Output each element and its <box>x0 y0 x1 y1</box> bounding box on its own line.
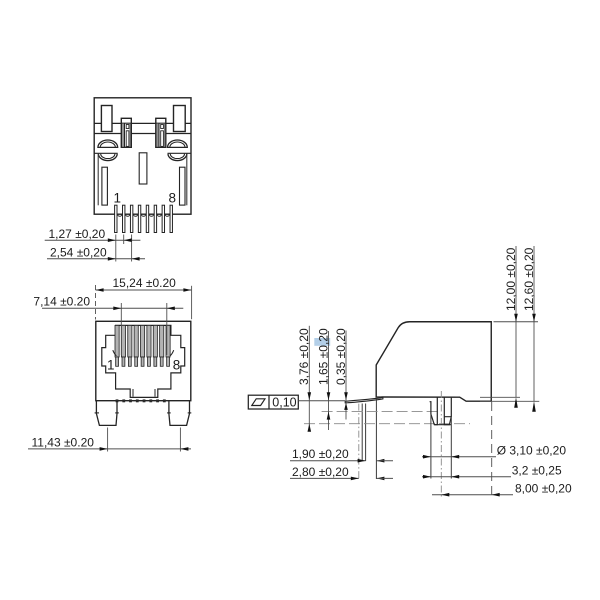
svg-text:0,10: 0,10 <box>272 396 296 410</box>
ext line 12,00 bottom <box>480 396 520 398</box>
view1 post slot upper <box>126 125 129 129</box>
arrow 2,80 right <box>376 477 384 481</box>
ext line 7,14 right <box>166 303 168 355</box>
view1 center post outline <box>121 118 131 147</box>
view1 post inner line <box>158 123 160 147</box>
svg-text:1: 1 <box>114 190 122 205</box>
view1 upper horizontal edge <box>94 122 191 124</box>
view1 screw dome outer <box>168 140 188 147</box>
arrow 0,35 bottom <box>344 403 348 410</box>
view3 peg bottom edge <box>434 424 451 426</box>
flatness symbol <box>252 399 265 406</box>
view1 screw band line <box>94 152 118 154</box>
view1 center post outline <box>156 118 166 147</box>
view3 pcb top line <box>322 411 441 413</box>
view1 post cap line <box>156 122 166 124</box>
view2 comb finger 4 lower <box>135 357 138 366</box>
svg-text:8: 8 <box>173 357 181 372</box>
dim line 12,60 <box>533 246 535 401</box>
svg-text:3,76 ±0,20: 3,76 ±0,20 <box>297 328 311 385</box>
view2 port opening outline <box>102 325 185 397</box>
svg-text:12,00 ±0,20: 12,00 ±0,20 <box>504 247 518 311</box>
arrow 2,80 left <box>351 477 359 481</box>
arrow 12,00 bottom <box>514 397 518 408</box>
view1 bottom scallop <box>149 214 153 216</box>
view3 peg left half <box>430 397 438 425</box>
arrow 3,76 bottom <box>308 424 312 432</box>
view1 screw dome inner <box>170 142 185 147</box>
view2 comb finger 5 lower <box>141 357 144 366</box>
view2 pin tip 4 <box>136 399 139 402</box>
arrow 3,10 right <box>451 455 459 459</box>
view2 comb finger 8 upper <box>160 325 164 357</box>
dim line 1,90 <box>290 460 366 462</box>
ext line 15,24 left <box>95 285 97 320</box>
view3 peg centerline <box>440 391 442 498</box>
arrow 3,10 left <box>423 455 431 459</box>
view1 pin 4 <box>138 205 140 232</box>
arrow 2,54 right <box>132 257 140 261</box>
view2 comb finger 2 upper <box>121 325 125 357</box>
dim line 1,65 <box>328 331 330 430</box>
ext line pin3 <box>131 235 133 262</box>
view1 post slot upper <box>161 125 164 129</box>
view2 pin tip 8 <box>163 399 166 402</box>
svg-text:1: 1 <box>107 357 115 372</box>
ext line pin2 <box>123 235 125 245</box>
dim line 1,27 <box>45 239 141 241</box>
view1 left top tab <box>101 106 112 132</box>
arrow 3,2 right <box>451 475 459 479</box>
svg-text:2,80 ±0,20: 2,80 ±0,20 <box>292 465 349 479</box>
view1 pin 8 <box>170 205 172 232</box>
arrow 12,00 top <box>514 314 518 322</box>
view1 bottom scallop <box>157 214 161 216</box>
view1 bottom scallop <box>134 214 138 216</box>
view1 right side slot <box>180 167 186 205</box>
view1 post cap line <box>121 122 131 124</box>
flatness tolerance frame <box>248 395 298 409</box>
view2 pin tip 6 <box>149 399 152 402</box>
view3 peg right half <box>444 397 451 425</box>
view2 left latch arc <box>113 350 117 356</box>
arrow 12,60 bottom <box>532 401 536 412</box>
view2 pin tip 5 <box>143 399 146 402</box>
arrow 3,76 top <box>308 392 312 400</box>
view3 peg right step <box>444 416 451 418</box>
ext line 15,24 right <box>191 286 193 319</box>
view3 pin line right <box>365 404 367 462</box>
view2 pin tip 7 <box>156 399 159 402</box>
view2 comb finger 9 lower <box>167 357 170 366</box>
svg-text:12,60 ±0,20: 12,60 ±0,20 <box>522 247 536 311</box>
arrow 1,90 left <box>358 459 366 463</box>
view2 right leg notch r <box>188 412 192 414</box>
view2 latch slot inner right <box>154 389 156 397</box>
view3 body outline <box>376 322 491 401</box>
svg-text:Ø 3,10 ±0,20: Ø 3,10 ±0,20 <box>497 443 567 457</box>
view1 center key slot <box>139 153 147 184</box>
view2 comb finger 6 lower <box>148 357 151 366</box>
view2 pin tip 3 <box>129 399 132 402</box>
view2 right leg <box>169 401 190 426</box>
view2 comb finger 2 lower <box>122 357 125 366</box>
selection highlight <box>314 338 330 346</box>
arrow 7,14 right <box>167 307 175 311</box>
view1 left side slot <box>102 167 108 205</box>
view2 pin tip 1 <box>116 399 119 402</box>
arrow 0,35 top <box>344 392 348 400</box>
ext line 7,14 left <box>120 303 122 355</box>
dim line 7,14 <box>42 307 183 309</box>
dim line 0,35 <box>345 331 347 420</box>
dim line 3,76 <box>308 326 310 427</box>
dim line 11,43 <box>28 448 191 450</box>
arrow 12,60 top <box>532 314 536 322</box>
view1 post left shade <box>157 124 159 147</box>
dim line 2,54 <box>47 258 145 260</box>
view1 post right shade <box>164 124 165 147</box>
view2 right leg notch l <box>167 412 171 414</box>
view1 connector body outline <box>94 98 191 214</box>
view3 pcb bottom line <box>304 423 470 425</box>
view2 comb finger 9 upper <box>166 325 170 357</box>
view3 body back extension <box>491 402 493 497</box>
view3 peg right ext <box>450 418 452 479</box>
svg-text:3,2 ±0,25: 3,2 ±0,25 <box>512 463 562 477</box>
view1 pin 1 <box>115 205 117 232</box>
arrow 8,00 left <box>441 493 449 497</box>
view1 post inner line <box>124 123 126 147</box>
view1 screw lower arc inner <box>170 154 184 159</box>
arrow 15,24 right <box>183 288 191 292</box>
svg-text:8: 8 <box>169 190 177 205</box>
arrow 1,65 top <box>327 392 331 400</box>
view2 comb finger 7 lower <box>154 357 157 366</box>
dim line 3,2 <box>422 476 511 478</box>
view2 right latch arc <box>170 350 174 356</box>
view1 screw lower arc outer <box>98 154 117 161</box>
dim line 3,10 <box>422 456 496 458</box>
ext line 11,43 right <box>179 428 181 452</box>
view1 bottom scallop <box>118 214 122 216</box>
view3 pin line left <box>361 404 363 462</box>
dim line 1,90 tail <box>376 460 393 462</box>
view1 bottom scallop <box>165 214 169 216</box>
view1 bottom scallop <box>141 214 145 216</box>
view1 post left shade <box>122 124 124 147</box>
arrow 3,2 left <box>423 475 431 479</box>
svg-text:1,90 ±0,20: 1,90 ±0,20 <box>292 447 349 461</box>
dim line 8,00 <box>432 494 513 496</box>
view3 peg left ext <box>430 414 432 479</box>
view1 lower horizontal edge <box>94 133 191 135</box>
view1 pin 5 <box>146 205 148 232</box>
view3 pin centerline <box>358 404 360 480</box>
svg-text:7,14 ±0.20: 7,14 ±0.20 <box>33 295 90 309</box>
view1 right top tab <box>174 106 186 132</box>
ext line 11,43 left <box>107 428 109 452</box>
view1 screw lower arc outer <box>168 154 187 161</box>
view2 comb finger 1 upper <box>115 325 119 357</box>
ext line top right <box>494 321 539 323</box>
view2 comb finger 4 upper <box>134 325 138 357</box>
view1 post right shade <box>130 124 131 147</box>
svg-text:1,65 ±0,20: 1,65 ±0,20 <box>316 328 330 385</box>
view2 latch slot inner left <box>132 389 134 397</box>
view1 bottom scallop <box>126 214 130 216</box>
view2 pin tip 2 <box>122 399 125 402</box>
view1 pin 6 <box>154 205 156 232</box>
view1 post slot lower <box>161 131 164 147</box>
arrow 1,27 left <box>108 238 116 242</box>
view1 pin 3 <box>130 205 132 232</box>
arrow 2,54 left <box>108 257 116 261</box>
svg-text:15,24 ±0.20: 15,24 ±0.20 <box>113 276 177 290</box>
arrow 1,90 right <box>376 459 384 463</box>
view1 screw dome outer <box>98 140 118 147</box>
svg-text:0,35 ±0,20: 0,35 ±0,20 <box>334 328 348 385</box>
view1 pin 7 <box>162 205 164 232</box>
view1 post slot lower <box>126 131 129 147</box>
arrow 8,00 right <box>492 493 500 497</box>
arrow 11,43 right <box>180 447 188 451</box>
flatness frame divider <box>268 395 270 409</box>
svg-text:1,27 ±0,20: 1,27 ±0,20 <box>49 227 106 241</box>
view2 comb finger 3 upper <box>128 325 132 357</box>
view2 comb finger 3 lower <box>128 357 131 366</box>
arrow 11,43 left <box>100 447 108 451</box>
view2 comb finger 6 upper <box>147 325 151 357</box>
view2 left leg notch r <box>115 412 119 414</box>
view2 left leg <box>96 401 117 426</box>
datum leader line <box>298 400 345 402</box>
svg-text:8,00 ±0,20: 8,00 ±0,20 <box>515 481 572 495</box>
dim line 15,24 <box>96 289 192 291</box>
view2 comb finger 5 upper <box>141 325 145 357</box>
view1 screw band line <box>168 152 192 154</box>
view3 contact hook <box>345 397 383 403</box>
arrow 7,14 left <box>113 307 121 311</box>
view2 comb finger 1 lower <box>116 357 119 366</box>
arrow 15,24 left <box>96 288 104 292</box>
svg-text:2,54 ±0,20: 2,54 ±0,20 <box>50 246 107 260</box>
svg-text:11,43 ±0.20: 11,43 ±0.20 <box>32 436 95 450</box>
dim line 2,80 tail <box>376 477 393 479</box>
arrow 1,27 right <box>124 238 132 242</box>
view1 screw lower arc inner <box>101 154 115 159</box>
ext line pin1 <box>115 235 117 262</box>
dim line 12,00 <box>515 246 517 397</box>
arrow 1,65 bottom <box>327 412 331 420</box>
dim line 2,80 <box>290 477 359 479</box>
view2 left leg notch l <box>95 412 99 414</box>
view2 connector body outline <box>96 321 191 400</box>
view1 screw dome inner <box>100 142 115 147</box>
ext line 12,60 bottom <box>480 400 539 402</box>
view1 right inner wall <box>186 154 188 206</box>
view2 comb finger 7 upper <box>153 325 157 357</box>
view3 body front extension <box>375 399 377 479</box>
view1 left inner wall <box>97 154 99 206</box>
view1 pin 2 <box>123 205 125 232</box>
view2 comb finger 8 lower <box>160 357 163 366</box>
